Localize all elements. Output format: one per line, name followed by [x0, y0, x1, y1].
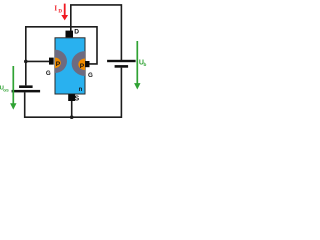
- svg-text:GS: GS: [3, 88, 9, 93]
- svg-text:b: b: [144, 62, 147, 67]
- svg-text:n: n: [79, 87, 83, 93]
- svg-text:S: S: [75, 95, 80, 102]
- svg-text:D: D: [74, 29, 79, 36]
- svg-text:P: P: [80, 63, 85, 70]
- svg-text:P: P: [56, 61, 61, 68]
- svg-text:I: I: [54, 6, 57, 13]
- svg-text:D: D: [58, 10, 62, 15]
- svg-text:G: G: [46, 70, 51, 77]
- svg-text:G: G: [88, 72, 93, 79]
